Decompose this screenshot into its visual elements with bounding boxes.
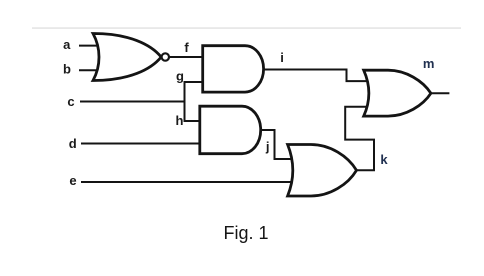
wire j (AND2 output to OR-k top input): [261, 130, 296, 159]
wire junction vertical from c to g and h: [184, 82, 186, 121]
svg-text:c: c: [67, 94, 74, 109]
wire i (AND1 output to OR-m top input): [263, 70, 367, 82]
wire g stub: [184, 81, 204, 83]
top rule line: [32, 27, 461, 29]
svg-text:i: i: [280, 50, 284, 65]
svg-text:a: a: [63, 37, 71, 52]
AND gate U3 (inputs h,d; output j): [200, 106, 261, 154]
wire input d: [81, 143, 201, 145]
svg-text:d: d: [69, 136, 77, 151]
svg-text:j: j: [265, 139, 270, 154]
wire input c: [80, 101, 185, 103]
AND gate U2 (inputs f,g; output i): [203, 46, 264, 92]
svg-text:m: m: [423, 56, 435, 71]
wire k (OR-k output to OR-m bottom input): [345, 107, 374, 171]
NOR gate U1 (inputs a,b; output f): [93, 33, 161, 80]
wire m output: [431, 92, 450, 94]
wire h stub: [184, 120, 201, 122]
svg-text:b: b: [63, 61, 71, 76]
svg-text:k: k: [380, 152, 388, 167]
svg-text:g: g: [176, 69, 184, 84]
svg-text:f: f: [184, 40, 189, 55]
caption Fig. 1: [4, 223, 484, 244]
svg-text:e: e: [69, 173, 76, 188]
OR gate U4 (inputs j,e; output k): [288, 145, 357, 197]
wire input a: [79, 45, 98, 47]
OR gate U5 (inputs i,k; output m): [364, 70, 431, 116]
svg-text:h: h: [176, 113, 184, 128]
wire input e: [81, 181, 292, 183]
wire f (NOR output to AND1 top input): [168, 56, 204, 58]
NOR gate U1 output bubble: [162, 53, 169, 60]
wire input b: [79, 69, 99, 71]
